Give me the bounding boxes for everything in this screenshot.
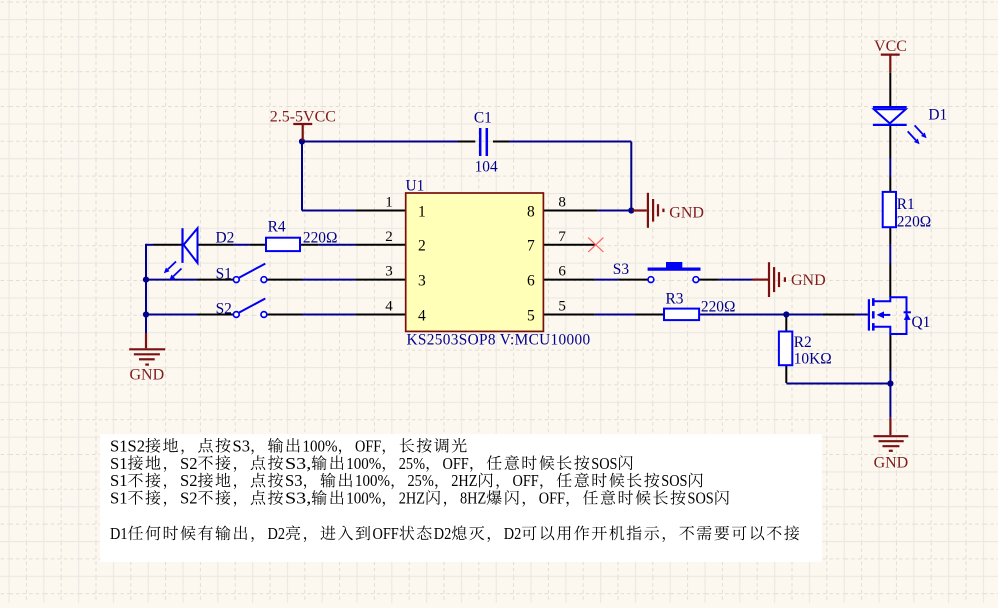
svg-text:2: 2 — [385, 229, 393, 245]
svg-text:4: 4 — [418, 307, 426, 324]
svg-text:3: 3 — [418, 273, 426, 290]
svg-text:U1: U1 — [406, 177, 425, 194]
svg-text:OFF: OFF — [355, 436, 381, 455]
svg-text:S3: S3 — [233, 436, 251, 455]
svg-text:S2: S2 — [180, 454, 198, 473]
svg-text:SOS: SOS — [688, 489, 714, 508]
svg-text:100%: 100% — [346, 489, 381, 508]
svg-text:25%: 25% — [399, 454, 425, 473]
svg-text:5: 5 — [558, 299, 566, 315]
svg-text:SOS: SOS — [591, 454, 617, 473]
svg-text:220Ω: 220Ω — [303, 229, 338, 246]
svg-text:D2: D2 — [268, 524, 286, 543]
svg-text:10KΩ: 10KΩ — [794, 350, 832, 367]
svg-text:2HZ: 2HZ — [451, 471, 477, 490]
svg-text:2HZ: 2HZ — [399, 489, 425, 508]
svg-text:S1: S1 — [110, 454, 128, 473]
svg-text:GND: GND — [669, 205, 704, 222]
svg-text:C1: C1 — [474, 110, 492, 127]
svg-text:100%: 100% — [355, 471, 390, 490]
svg-text:KS2503SOP8 V:MCU10000: KS2503SOP8 V:MCU10000 — [407, 332, 591, 349]
svg-text:220Ω: 220Ω — [897, 214, 932, 231]
svg-text:6: 6 — [558, 264, 566, 280]
svg-text:S2: S2 — [180, 471, 198, 490]
svg-text:R4: R4 — [268, 219, 286, 236]
svg-text:100%: 100% — [346, 454, 381, 473]
svg-text:1: 1 — [418, 203, 426, 220]
svg-text:S1: S1 — [110, 471, 128, 490]
svg-text:D2: D2 — [504, 524, 522, 543]
svg-text:OFF: OFF — [539, 489, 565, 508]
svg-text:3: 3 — [385, 264, 393, 280]
svg-text:104: 104 — [475, 158, 498, 175]
svg-text:R3: R3 — [666, 290, 684, 307]
svg-text:5: 5 — [527, 307, 535, 324]
svg-text:25%: 25% — [408, 471, 434, 490]
svg-text:S3: S3 — [285, 471, 303, 490]
svg-text:S2: S2 — [216, 300, 232, 317]
svg-text:GND: GND — [874, 454, 909, 471]
svg-text:GND: GND — [129, 366, 164, 383]
svg-text:SOS: SOS — [661, 471, 687, 490]
svg-text:S3,: S3, — [285, 489, 311, 508]
svg-text:OFF: OFF — [443, 454, 469, 473]
svg-text:220Ω: 220Ω — [701, 298, 736, 315]
svg-text:7: 7 — [527, 238, 535, 255]
svg-text:8HZ: 8HZ — [460, 489, 486, 508]
svg-text:8: 8 — [558, 195, 566, 211]
svg-text:4: 4 — [385, 299, 393, 315]
svg-text:S1: S1 — [110, 489, 128, 508]
svg-text:Q1: Q1 — [912, 314, 931, 331]
svg-text:D1: D1 — [928, 106, 947, 123]
svg-text:2: 2 — [418, 238, 426, 255]
svg-text:R2: R2 — [794, 334, 812, 351]
svg-text:2.5-5VCC: 2.5-5VCC — [270, 108, 336, 125]
svg-text:S2: S2 — [180, 489, 198, 508]
svg-text:7: 7 — [558, 229, 566, 245]
svg-text:GND: GND — [791, 272, 826, 289]
svg-text:6: 6 — [527, 273, 535, 290]
svg-text:S1: S1 — [216, 266, 232, 283]
svg-text:S1S2: S1S2 — [110, 436, 145, 455]
svg-text:1: 1 — [385, 195, 393, 211]
svg-text:S3,: S3, — [285, 454, 311, 473]
svg-text:S3: S3 — [613, 261, 630, 278]
svg-text:R1: R1 — [897, 196, 915, 213]
svg-text:OFF: OFF — [373, 524, 399, 543]
svg-text:D2: D2 — [434, 524, 452, 543]
svg-text:100%: 100% — [303, 436, 338, 455]
svg-text:8: 8 — [527, 203, 535, 220]
svg-text:D1: D1 — [110, 524, 128, 543]
svg-text:D2: D2 — [216, 229, 235, 246]
svg-text:OFF: OFF — [513, 471, 539, 490]
svg-text:VCC: VCC — [874, 38, 907, 55]
